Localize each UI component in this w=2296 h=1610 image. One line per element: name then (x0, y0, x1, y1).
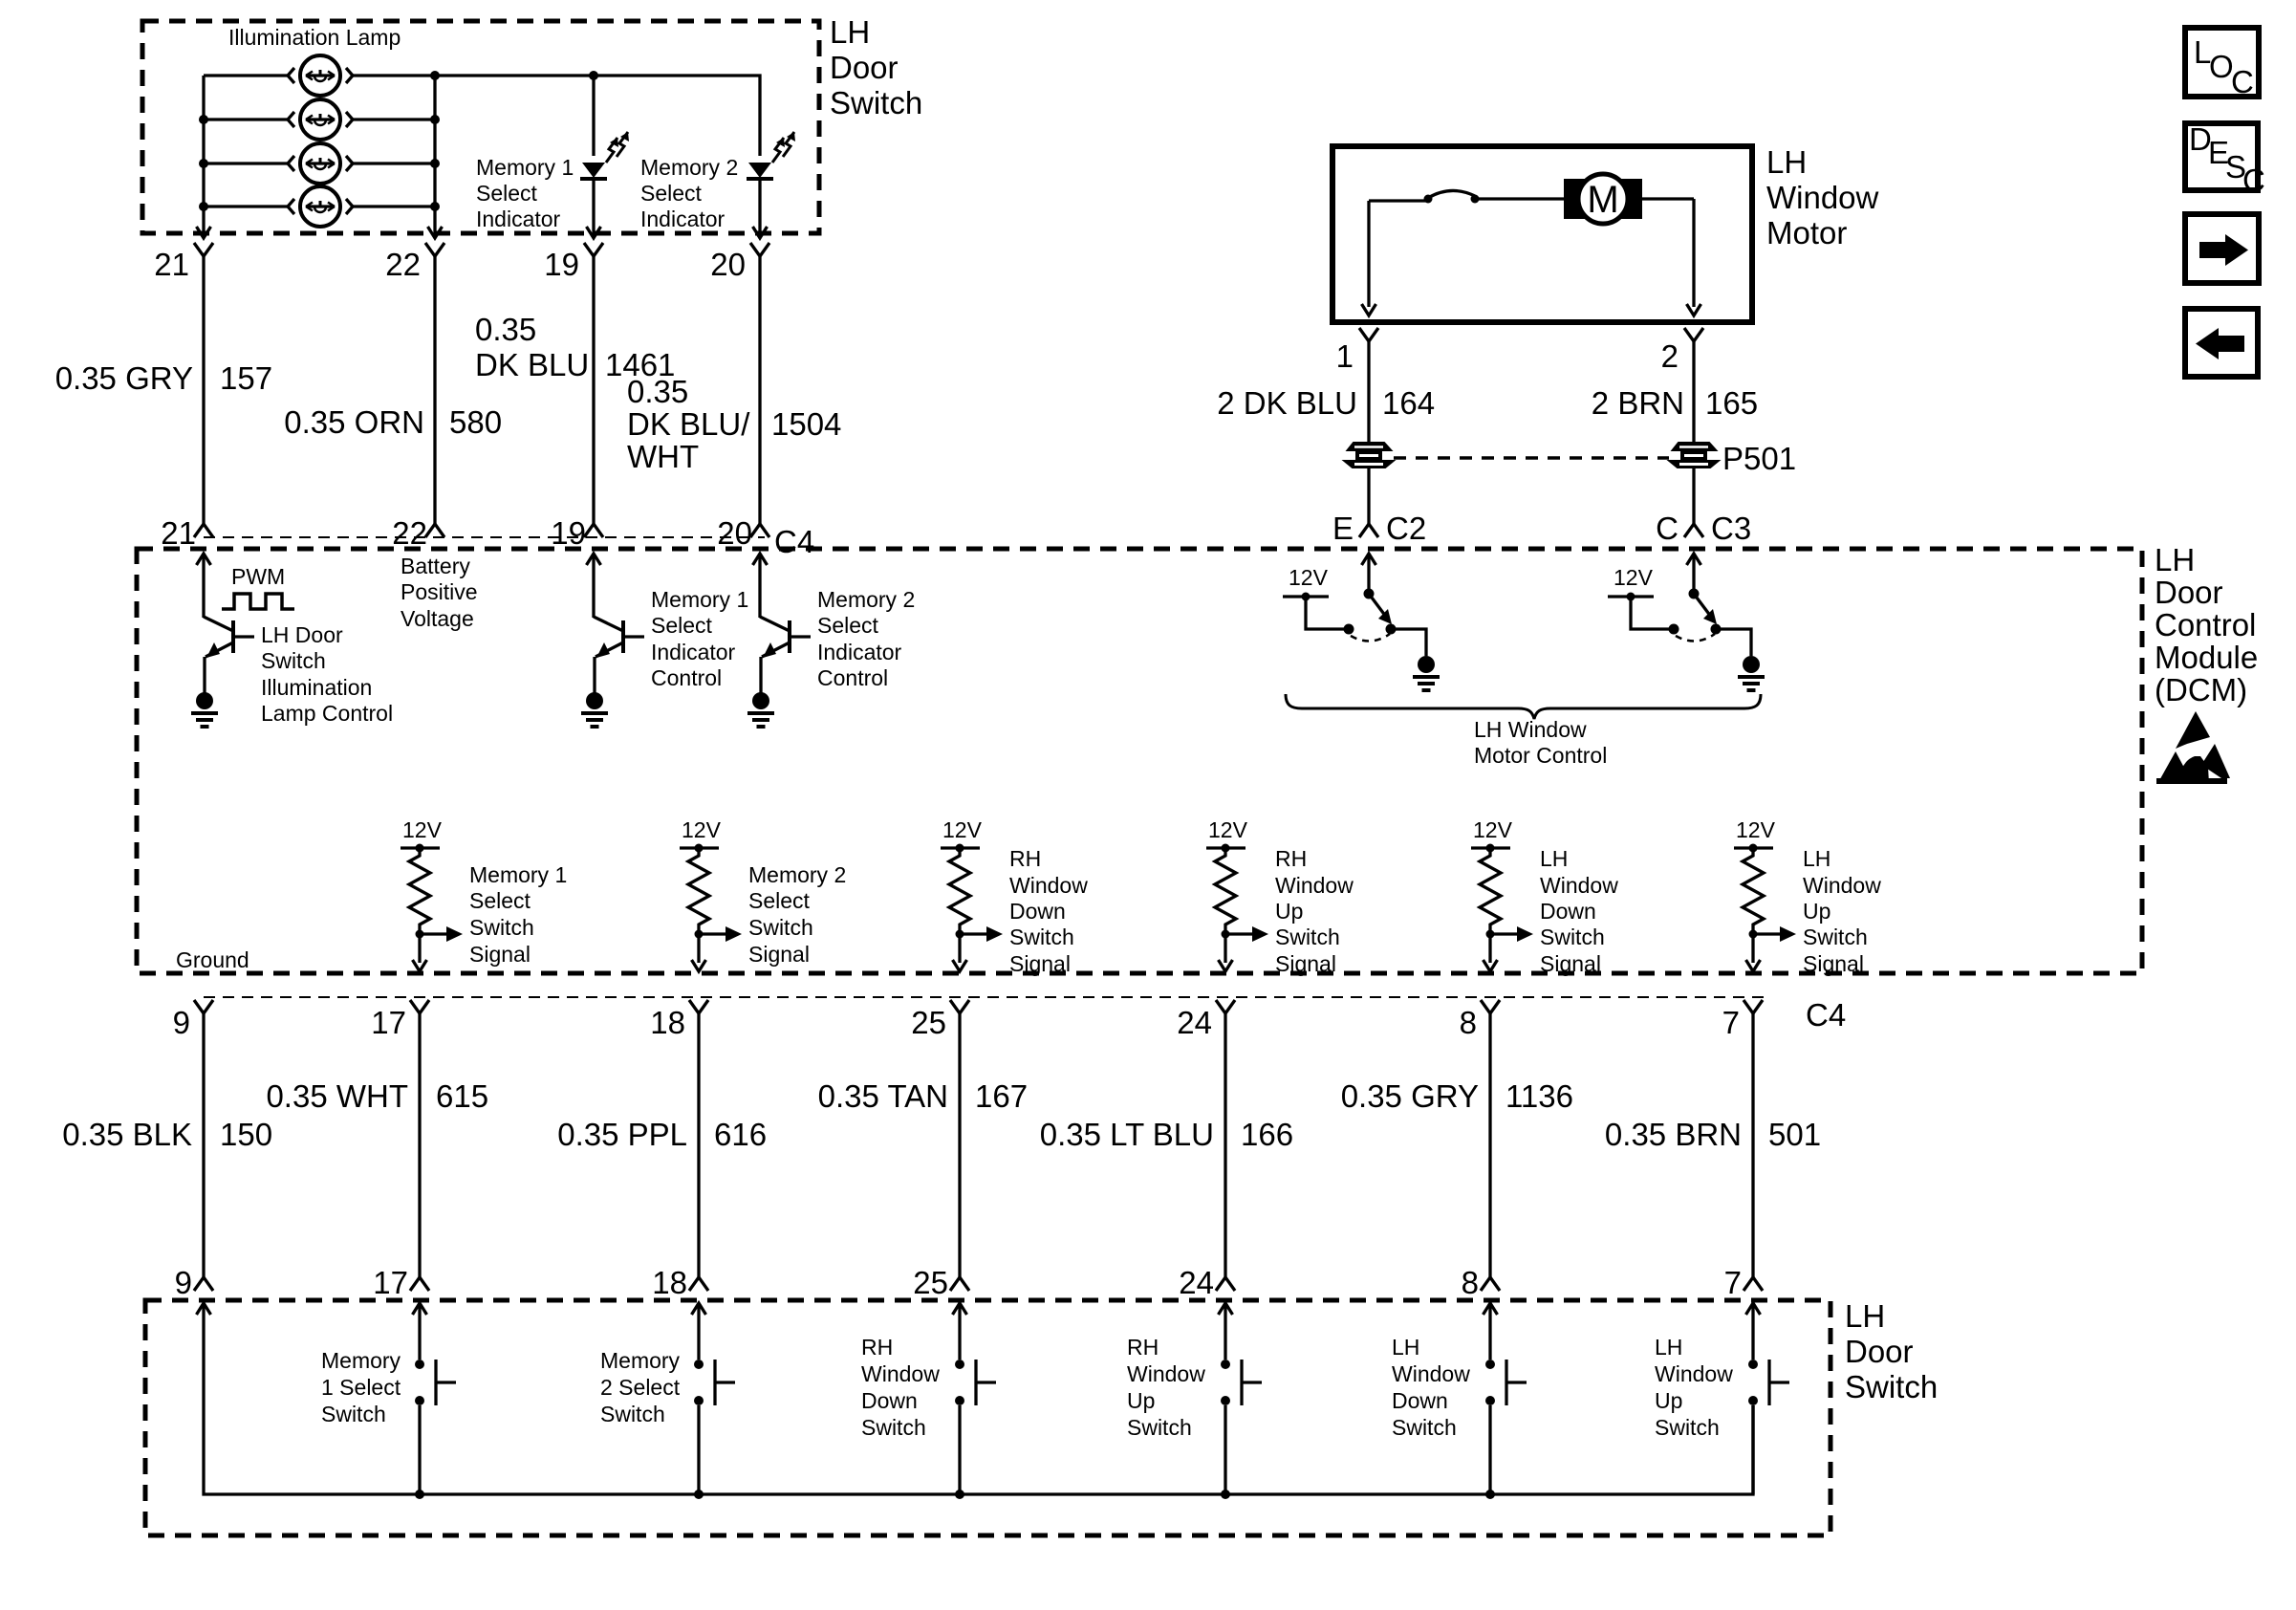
svg-text:12V: 12V (1473, 817, 1513, 842)
svg-text:Control: Control (2155, 607, 2256, 642)
svg-text:25: 25 (913, 1265, 948, 1300)
svg-text:9: 9 (173, 1005, 190, 1040)
wire pin 18 to door switch (697, 1013, 700, 1277)
svg-text:Select: Select (469, 888, 531, 913)
pin 19 connector (top row) (584, 243, 603, 256)
svg-text:19: 19 (551, 515, 586, 551)
illumination lamp 1 (288, 55, 353, 96)
svg-text:22: 22 (385, 247, 421, 282)
svg-text:Signal: Signal (1803, 951, 1864, 976)
wire memory 1 indicator branch (592, 76, 595, 156)
svg-text:C: C (2231, 64, 2254, 99)
junction node at pin 22 bus (430, 71, 440, 80)
arrow out of LH door switch at pin 21 (202, 227, 205, 237)
svg-text:18: 18 (652, 1265, 687, 1300)
push switch SW1 (415, 1324, 456, 1494)
transistor Q3 memory 2 select indicator control (747, 554, 811, 727)
motor control switch S2 (C/C3) (1608, 554, 1765, 690)
pin 7 connector below DCM (1744, 1000, 1763, 1013)
svg-text:0.35: 0.35 (475, 312, 536, 347)
svg-text:9: 9 (175, 1265, 192, 1300)
pin 18 connector below DCM (689, 1000, 708, 1013)
svg-text:LH: LH (1655, 1335, 1682, 1360)
left arrow legend box (2185, 309, 2258, 377)
svg-text:2 BRN: 2 BRN (1592, 385, 1684, 421)
wire lamp 2 left lead (204, 118, 288, 120)
svg-text:Up: Up (1655, 1388, 1682, 1413)
svg-text:Switch: Switch (1803, 925, 1868, 949)
pin 24 connector above door switch (male) (1216, 1277, 1235, 1291)
svg-text:165: 165 (1705, 385, 1758, 421)
svg-text:Switch: Switch (600, 1402, 665, 1426)
pin 20 connector (top row) (750, 243, 769, 256)
wire label 0.35 ORN 580 (284, 404, 502, 440)
svg-text:RH: RH (1275, 846, 1307, 871)
LH Window Down Switch Signal label (1540, 846, 1618, 976)
arrow into door switch at pin 17 (418, 1303, 421, 1324)
junction right bus (430, 202, 440, 211)
svg-text:Up: Up (1803, 899, 1830, 924)
svg-text:Window: Window (861, 1361, 940, 1386)
resistor R5 12V pullup (1471, 817, 1533, 971)
LH Window Motor box (1332, 146, 1752, 322)
svg-text:WHT: WHT (627, 439, 699, 474)
svg-text:Door: Door (2155, 575, 2223, 610)
P501 dashed tie line (1394, 456, 1669, 460)
ground bus wire in door switch (204, 1324, 1753, 1494)
svg-text:616: 616 (714, 1117, 767, 1152)
svg-text:18: 18 (650, 1005, 685, 1040)
LED D1 Memory 1 Select Indicator (580, 132, 629, 179)
connector C4 thin line (top) (204, 536, 765, 538)
svg-text:2 DK BLU: 2 DK BLU (1217, 385, 1357, 421)
wire motor internal top left (1369, 199, 1426, 202)
svg-text:Switch: Switch (261, 648, 326, 673)
Memory 2 Select Switch Signal label (748, 862, 846, 967)
svg-text:Switch: Switch (1540, 925, 1605, 949)
svg-text:0.35 ORN: 0.35 ORN (284, 404, 424, 440)
svg-text:1 Select: 1 Select (321, 1375, 401, 1400)
svg-text:12V: 12V (1614, 565, 1654, 590)
svg-text:0.35 GRY: 0.35 GRY (1341, 1078, 1479, 1114)
svg-text:Door: Door (830, 50, 899, 85)
wire label 0.35 PPL 616 (557, 1117, 767, 1152)
wire pin 22 to C4 (433, 256, 436, 524)
PWM waveform (222, 594, 294, 609)
arrow out of LH door switch at pin 20 (758, 227, 761, 237)
svg-text:Lamp Control: Lamp Control (261, 701, 393, 726)
resistor R6 12V pullup (1734, 817, 1796, 971)
svg-text:Memory 2: Memory 2 (640, 155, 738, 180)
wire left lamp bus (202, 76, 205, 227)
svg-text:Switch: Switch (1275, 925, 1340, 949)
bus junction (955, 1490, 964, 1499)
LH Door Switch title (top) (830, 14, 922, 120)
svg-text:Signal: Signal (1009, 951, 1071, 976)
brace LH window motor control (1286, 694, 1761, 719)
arrow into door switch at pin 8 (1488, 1303, 1491, 1324)
wire motor internal right (1692, 199, 1695, 307)
arrow into door switch at pin 9 (202, 1303, 205, 1324)
svg-text:12V: 12V (942, 817, 983, 842)
svg-text:150: 150 (220, 1117, 272, 1152)
wire top feed to indicators (435, 76, 760, 156)
LH Door Switch box (bottom) (145, 1300, 1830, 1535)
Memory 2 Select Indicator label (640, 155, 738, 231)
arrow into door switch at pin 18 (697, 1303, 700, 1324)
illumination lamp 3 (288, 143, 353, 184)
wire label 2 BRN 165 (1592, 385, 1758, 421)
svg-text:0.35: 0.35 (627, 374, 688, 409)
arrow into door switch at pin 25 (958, 1303, 961, 1324)
resistor R1 12V pullup (401, 817, 463, 971)
svg-text:RH: RH (861, 1335, 893, 1360)
LH Window Up Switch Signal label (1803, 846, 1881, 976)
junction right bus (430, 115, 440, 124)
svg-text:Battery: Battery (401, 554, 470, 578)
resistor R4 12V pullup (1206, 817, 1268, 971)
wire motor pin 2 down (1692, 341, 1695, 442)
svg-text:17: 17 (371, 1005, 406, 1040)
motor control switch S1 (E/C2) (1283, 554, 1440, 690)
svg-text:E: E (1332, 511, 1354, 546)
svg-text:21: 21 (161, 515, 196, 551)
wire label 0.35 DK BLU 1461 (475, 312, 675, 382)
Memory 1 Select Indicator Control label (651, 587, 748, 690)
LH Door Switch title (bottom) (1845, 1298, 1938, 1404)
svg-text:Illumination: Illumination (261, 675, 372, 700)
illumination lamp 4 (288, 186, 353, 227)
svg-text:Control: Control (817, 665, 888, 690)
svg-text:C4: C4 (774, 524, 814, 559)
pin 22 connector C4 (male) (425, 524, 444, 537)
junction left bus (199, 115, 208, 124)
svg-text:Switch: Switch (1392, 1415, 1457, 1440)
pin 25 connector above door switch (male) (950, 1277, 969, 1291)
wire P501 to pin C (1692, 468, 1695, 524)
bus junction (1221, 1490, 1230, 1499)
svg-text:DK BLU: DK BLU (475, 347, 589, 382)
pin 9 connector above door switch (male) (194, 1277, 213, 1291)
LOC legend box (2185, 28, 2259, 99)
svg-text:Switch: Switch (1009, 925, 1074, 949)
svg-text:P501: P501 (1722, 441, 1796, 476)
LH Window Up Switch switch label (1655, 1335, 1733, 1440)
wire lamp 1 right lead (353, 74, 435, 76)
svg-text:C: C (1656, 511, 1679, 546)
push switch SW2 (694, 1324, 735, 1494)
svg-text:LH: LH (1803, 846, 1830, 871)
svg-text:501: 501 (1768, 1117, 1821, 1152)
svg-text:LH: LH (1540, 846, 1568, 871)
svg-text:Signal: Signal (1540, 951, 1601, 976)
LH Window Down Switch switch label (1392, 1335, 1470, 1440)
pin 25 connector below DCM (950, 1000, 969, 1013)
wire pin 17 to door switch (418, 1013, 421, 1277)
pin 18 connector above door switch (male) (689, 1277, 708, 1291)
svg-text:12V: 12V (1208, 817, 1248, 842)
pin 21 connector C4 (male) (194, 524, 213, 537)
Memory 1 Select Switch Signal label (469, 862, 567, 967)
svg-text:Switch: Switch (1845, 1369, 1938, 1404)
Memory 1 Select Indicator label (476, 155, 574, 231)
svg-text:157: 157 (220, 360, 272, 396)
svg-text:Select: Select (817, 613, 879, 638)
svg-text:12V: 12V (1289, 565, 1329, 590)
svg-text:Up: Up (1127, 1388, 1155, 1413)
svg-text:2 Select: 2 Select (600, 1375, 681, 1400)
svg-text:20: 20 (710, 247, 746, 282)
svg-text:Window: Window (1009, 873, 1088, 898)
svg-text:(DCM): (DCM) (2155, 672, 2247, 707)
svg-text:Memory 1: Memory 1 (476, 155, 574, 180)
svg-text:Select: Select (476, 181, 538, 206)
transistor Q2 memory 1 select indicator control (581, 554, 644, 727)
arrow into door switch at pin 24 (1224, 1303, 1226, 1324)
LH Door Switch box (top) (142, 21, 819, 233)
svg-text:Signal: Signal (748, 942, 810, 967)
svg-text:1: 1 (1336, 338, 1354, 374)
arrow out of LH door switch at pin 22 (433, 227, 436, 237)
svg-text:RH: RH (1127, 1335, 1159, 1360)
svg-text:Select: Select (651, 613, 713, 638)
bus junction (415, 1490, 424, 1499)
svg-text:PWM: PWM (231, 564, 285, 589)
svg-text:Indicator: Indicator (817, 640, 902, 664)
svg-text:1504: 1504 (771, 406, 841, 442)
svg-text:Switch: Switch (748, 915, 813, 940)
svg-text:0.35 BLK: 0.35 BLK (62, 1117, 192, 1152)
svg-text:Switch: Switch (861, 1415, 926, 1440)
wire pin 9 to door switch (202, 1013, 205, 1277)
pin 17 connector above door switch (male) (410, 1277, 429, 1291)
svg-text:1136: 1136 (1505, 1078, 1573, 1114)
svg-text:615: 615 (436, 1078, 488, 1114)
svg-text:Down: Down (1540, 899, 1596, 924)
svg-text:Select: Select (748, 888, 811, 913)
junction node at memory 1 branch (589, 71, 598, 80)
svg-text:167: 167 (975, 1078, 1028, 1114)
svg-text:Switch: Switch (1655, 1415, 1720, 1440)
svg-text:Down: Down (1392, 1388, 1448, 1413)
wire label 0.35 BLK 150 (62, 1117, 272, 1152)
RH Window Up Switch switch label (1127, 1335, 1205, 1440)
wire label 0.35 GRY 1136 (1341, 1078, 1573, 1114)
ESD sensitive symbol (2156, 711, 2230, 784)
wire pin 21 to C4 (202, 256, 205, 524)
svg-text:0.35 TAN: 0.35 TAN (818, 1078, 948, 1114)
svg-text:LH: LH (1766, 144, 1807, 180)
svg-text:DK BLU/: DK BLU/ (627, 406, 750, 442)
wire label 0.35 WHT 615 (266, 1078, 488, 1114)
svg-text:Window: Window (1275, 873, 1354, 898)
svg-text:O: O (2209, 49, 2234, 84)
svg-text:Select: Select (640, 181, 703, 206)
svg-text:Window: Window (1540, 873, 1618, 898)
wire label 0.35 BRN 501 (1605, 1117, 1821, 1152)
junction right bus (430, 159, 440, 168)
svg-text:0.35 GRY: 0.35 GRY (55, 360, 193, 396)
LH Window Motor Control label (1474, 717, 1607, 768)
svg-text:7: 7 (1722, 1005, 1740, 1040)
svg-text:0.35 PPL: 0.35 PPL (557, 1117, 687, 1152)
bus junction (1485, 1490, 1495, 1499)
LED D2 Memory 2 Select Indicator (747, 132, 795, 179)
svg-text:8: 8 (1462, 1265, 1479, 1300)
wire lamp 3 left lead (204, 162, 288, 164)
resistor R3 12V pullup (941, 817, 1003, 971)
Memory 2 Select Switch switch label (600, 1348, 681, 1426)
pin 21 connector (top row) (194, 243, 213, 256)
svg-text:C4: C4 (1806, 997, 1846, 1033)
wire label 0.35 DK BLU/WHT 1504 (627, 374, 841, 474)
svg-text:2: 2 (1661, 338, 1679, 374)
wire lamp 2 right lead (353, 118, 435, 120)
svg-text:Switch: Switch (469, 915, 534, 940)
svg-text:166: 166 (1241, 1117, 1293, 1152)
svg-text:Illumination Lamp: Illumination Lamp (228, 25, 401, 50)
svg-text:Control: Control (651, 665, 722, 690)
svg-text:24: 24 (1177, 1005, 1212, 1040)
svg-text:Switch: Switch (830, 85, 922, 120)
svg-text:Window: Window (1766, 180, 1879, 215)
inline connector P501 right half (1667, 442, 1722, 468)
connector C4 thin line (bottom) (204, 996, 1764, 998)
illumination lamp 2 (288, 99, 353, 140)
svg-text:Indicator: Indicator (651, 640, 736, 664)
svg-text:12V: 12V (402, 817, 443, 842)
svg-text:0.35 BRN: 0.35 BRN (1605, 1117, 1742, 1152)
wire lamp 3 right lead (353, 162, 435, 164)
svg-text:Signal: Signal (469, 942, 531, 967)
svg-text:LH Door: LH Door (261, 622, 343, 647)
svg-text:Down: Down (1009, 899, 1066, 924)
svg-text:Indicator: Indicator (476, 207, 561, 231)
svg-text:24: 24 (1179, 1265, 1214, 1300)
wire pin 19 to C4 (592, 256, 595, 524)
wire breaker to motor (1475, 197, 1566, 200)
wire motor pin 1 down (1367, 341, 1370, 442)
svg-text:Down: Down (861, 1388, 918, 1413)
svg-text:Voltage: Voltage (401, 606, 474, 631)
svg-text:12V: 12V (682, 817, 722, 842)
wire motor internal left (1367, 201, 1370, 307)
svg-text:19: 19 (544, 247, 579, 282)
svg-text:21: 21 (154, 247, 189, 282)
LH Window Motor title (1766, 144, 1879, 250)
motor pin 2 connector (1684, 328, 1703, 341)
svg-text:Switch: Switch (1127, 1415, 1192, 1440)
svg-text:Indicator: Indicator (640, 207, 726, 231)
transistor Q1 LH door switch illumination lamp control (191, 554, 254, 727)
svg-text:17: 17 (373, 1265, 408, 1300)
right arrow legend box (2185, 214, 2259, 283)
svg-text:LH: LH (1392, 1335, 1419, 1360)
wire pin 24 to door switch (1224, 1013, 1226, 1277)
wire lamp 1 left lead (204, 74, 288, 76)
pin E C2 connector (male) (1359, 524, 1378, 537)
svg-text:20: 20 (717, 515, 752, 551)
svg-text:0.35 WHT: 0.35 WHT (266, 1078, 408, 1114)
svg-text:7: 7 (1724, 1265, 1742, 1300)
svg-text:580: 580 (449, 404, 502, 440)
svg-text:LH: LH (1845, 1298, 1885, 1334)
svg-text:Memory 2: Memory 2 (817, 587, 915, 612)
svg-text:M: M (1587, 179, 1618, 221)
svg-text:C3: C3 (1711, 511, 1751, 546)
LH Door Control Module (DCM) box (137, 549, 2142, 973)
push switch SW5 (1485, 1324, 1527, 1494)
wire right lamp bus (433, 76, 436, 227)
svg-text:164: 164 (1382, 385, 1435, 421)
svg-text:Up: Up (1275, 899, 1303, 924)
svg-text:22: 22 (392, 515, 427, 551)
svg-text:LH: LH (2155, 542, 2195, 577)
Battery Positive Voltage label (401, 554, 478, 631)
svg-text:Memory: Memory (600, 1348, 681, 1373)
wire motor to right leg (1642, 197, 1694, 200)
resistor R2 12V pullup (680, 817, 742, 971)
RH Window Down Switch switch label (861, 1335, 940, 1440)
junction left bus (199, 202, 208, 211)
svg-text:Motor: Motor (1766, 215, 1847, 250)
svg-text:C: C (2242, 163, 2265, 198)
DCM title (2155, 542, 2258, 707)
RH Window Down Switch Signal label (1009, 846, 1088, 976)
motor M symbol (1564, 174, 1642, 224)
svg-text:Door: Door (1845, 1334, 1914, 1369)
wire lamp 4 left lead (204, 205, 288, 207)
svg-text:0.35 LT BLU: 0.35 LT BLU (1040, 1117, 1214, 1152)
svg-text:12V: 12V (1736, 817, 1776, 842)
svg-text:Memory: Memory (321, 1348, 401, 1373)
svg-text:Switch: Switch (321, 1402, 386, 1426)
svg-text:Ground: Ground (176, 947, 249, 972)
circuit breaker (1424, 190, 1480, 203)
svg-text:Window: Window (1803, 873, 1881, 898)
wire below D1 (592, 179, 595, 227)
svg-text:Window: Window (1655, 1361, 1733, 1386)
push switch SW3 (955, 1324, 996, 1494)
pin 7 connector above door switch (male) (1744, 1277, 1763, 1291)
Memory 1 Select Switch switch label (321, 1348, 401, 1426)
pin 8 connector above door switch (male) (1481, 1277, 1500, 1291)
wire label 0.35 GRY 157 (55, 360, 272, 396)
pin 9 connector below DCM (194, 1000, 213, 1013)
svg-text:Memory 1: Memory 1 (651, 587, 748, 612)
push switch SW6 (1748, 1324, 1789, 1494)
svg-text:Positive: Positive (401, 579, 478, 604)
svg-text:Window: Window (1392, 1361, 1470, 1386)
junction left bus (199, 159, 208, 168)
wire P501 to pin E (1367, 468, 1370, 524)
svg-text:Signal: Signal (1275, 951, 1336, 976)
pin 24 connector below DCM (1216, 1000, 1235, 1013)
svg-text:Module: Module (2155, 640, 2258, 675)
pin 17 connector below DCM (410, 1000, 429, 1013)
wire label 2 DK BLU 164 (1217, 385, 1435, 421)
svg-text:C2: C2 (1386, 511, 1426, 546)
arrow into door switch at pin 7 (1751, 1303, 1754, 1324)
wire label 0.35 TAN 167 (818, 1078, 1028, 1114)
pin C C3 connector (male) (1684, 524, 1703, 537)
svg-text:25: 25 (911, 1005, 946, 1040)
push switch SW4 (1221, 1324, 1262, 1494)
wire pin 25 to door switch (958, 1013, 961, 1277)
pin 22 connector (top row) (425, 243, 444, 256)
bus junction (694, 1490, 704, 1499)
svg-text:Window: Window (1127, 1361, 1205, 1386)
